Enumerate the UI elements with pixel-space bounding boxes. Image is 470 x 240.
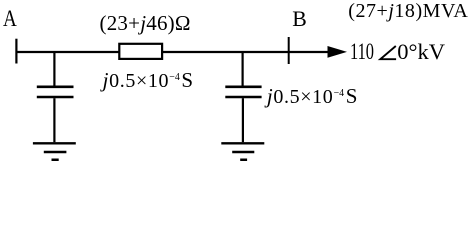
svg-text:S: S xyxy=(181,68,193,92)
label 110∠0°kV xyxy=(350,39,445,65)
svg-text:(23+j46)Ω: (23+j46)Ω xyxy=(100,11,191,35)
svg-text:A: A xyxy=(3,6,17,31)
svg-text:−4: −4 xyxy=(334,87,345,99)
svg-text:B: B xyxy=(292,7,307,31)
label j0.5×10⁻⁴S (right shunt admittance) xyxy=(264,84,358,108)
svg-text:−4: −4 xyxy=(169,71,180,83)
wire: left capacitor to ground xyxy=(53,98,55,142)
ground (left) xyxy=(33,143,76,160)
svg-text:110: 110 xyxy=(350,39,374,65)
arrow to load (output) xyxy=(328,46,348,58)
capacitor C1 (left shunt) bottom plate xyxy=(37,96,74,99)
capacitor C2 (right shunt) top plate xyxy=(225,86,261,89)
wire: right capacitor to ground xyxy=(242,98,244,142)
svg-text:0°kV: 0°kV xyxy=(397,39,445,64)
capacitor C2 (right shunt) bottom plate xyxy=(225,96,261,99)
svg-text:j0.5×10: j0.5×10 xyxy=(264,84,333,108)
bus tick at node A xyxy=(15,39,17,64)
svg-text:S: S xyxy=(346,84,358,108)
bus tick at node B xyxy=(288,37,290,64)
resistor box Z (series impedance) xyxy=(119,44,162,59)
capacitor C1 (left shunt) top plate xyxy=(37,86,74,89)
wire: main horizontal line from A to arrow xyxy=(16,51,330,53)
ground (right) xyxy=(221,143,264,160)
wire: right shunt drop from main line xyxy=(242,52,244,86)
svg-text:(27+j18)MVA: (27+j18)MVA xyxy=(348,0,468,22)
svg-text:j0.5×10: j0.5×10 xyxy=(100,68,169,92)
angle symbol (drawn) xyxy=(380,46,396,59)
label j0.5×10⁻⁴S (left shunt admittance) xyxy=(100,68,194,92)
wire: left shunt drop from main line xyxy=(53,52,55,86)
